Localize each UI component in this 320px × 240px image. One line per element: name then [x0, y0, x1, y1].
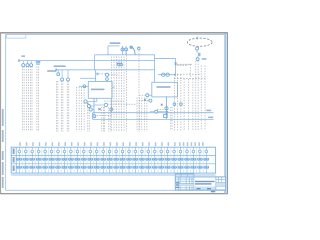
block1 left input contact — [79, 85, 89, 88]
cable group H3 dashed wires — [201, 66, 205, 131]
cable group C2 dashed wires — [88, 105, 89, 132]
cable long dashed wire — [138, 50, 140, 131]
control bus 24v wire — [93, 119, 214, 121]
drawing frame border — [6, 33, 226, 193]
wire number labels above terminal table — [19, 142, 203, 146]
bus 24v label — [208, 117, 213, 119]
generator lead wire — [196, 47, 199, 50]
cable group F dashed wires — [171, 107, 172, 131]
matching unit 2DBT block — [152, 82, 178, 97]
block1 right drop wire — [110, 87, 115, 113]
cable group A dashed wires — [23, 66, 39, 131]
matching unit 1DBT block — [88, 82, 112, 99]
dashed connector row 4 — [107, 103, 137, 105]
cable group H2 dashed wires — [196, 61, 198, 131]
contact K11 on feed wire — [165, 107, 168, 114]
bus 1Sh label — [110, 42, 121, 44]
cable group E dashed wires — [137, 98, 147, 132]
control bus 1n wire — [93, 112, 214, 114]
bus 1a label — [21, 55, 25, 57]
contactor KM1 coil — [196, 50, 206, 61]
left margin stamp column texts — [2, 109, 4, 188]
terminal row 3 fuse links — [17, 164, 209, 173]
fuse F2 on riser — [125, 46, 128, 55]
generator G1 dashed ellipse — [188, 38, 213, 46]
dashed connector row 2 — [174, 78, 206, 80]
bus 2Sh left drop wire — [94, 55, 96, 70]
bus 1Sh wire — [108, 46, 120, 55]
contact K3 under bus3 — [30, 61, 33, 67]
cable long dashed wire 2 — [126, 50, 128, 131]
bus 2Sh wire — [95, 54, 155, 56]
cable group C dashed wires — [77, 87, 85, 132]
dashed connector row 1 — [174, 73, 201, 75]
cable group B dashed wires — [56, 81, 69, 132]
contact K2 under bus3 — [26, 61, 29, 67]
contact K1 under bus3 — [22, 61, 25, 67]
block2 bottom feed wire — [166, 96, 168, 119]
bus 4 section wire — [56, 68, 155, 71]
contact K5 under bus4 — [67, 70, 70, 81]
cable group H dashed wires — [184, 79, 193, 131]
cable group D2 dashed wires — [102, 107, 105, 132]
label 2Sh sektsiya — [54, 65, 66, 67]
block1 top right contact pair — [105, 73, 117, 81]
bus 3 main wire — [19, 59, 155, 62]
feeder riser to block2 — [154, 55, 156, 83]
dashed connector row 3 — [104, 100, 124, 102]
junction mark left of block2 — [144, 99, 146, 101]
block2 under contact K10 — [150, 110, 167, 113]
bus 2Sh right segment — [155, 58, 176, 60]
current transformer TA1 ring contacts — [157, 103, 182, 110]
top-left stamp box graph 26 — [7, 35, 26, 39]
contactor KM2 flag — [175, 62, 193, 65]
generator top tick — [196, 37, 198, 40]
contact K0 with cable tail — [138, 46, 141, 50]
terminal strip table frame — [11, 147, 215, 175]
cable group G dashed wires — [174, 75, 181, 131]
contact K4a under bus4 — [57, 70, 60, 76]
title block document name text — [176, 181, 215, 193]
dashed link under contactor — [179, 65, 191, 80]
terminal T1 on bus3 — [36, 61, 40, 64]
terminal row 1 circles — [18, 147, 208, 155]
title block stamp — [175, 174, 225, 190]
dashed connector row 5 — [97, 115, 112, 117]
block2 left input contact — [139, 94, 152, 97]
terminal row 2 fuse links — [17, 156, 209, 164]
switch SA1 curved riser — [130, 46, 135, 55]
bus 1n label — [206, 110, 211, 112]
contact K4 under bus4 — [61, 70, 64, 81]
drawing sheet page — [0, 33, 227, 194]
terminal table row labels — [13, 149, 15, 172]
contact pair K7 K8 — [158, 73, 176, 76]
feeder drop wire right — [175, 58, 177, 76]
relay contact group under block1 — [84, 98, 108, 117]
terminal table column separators — [23, 147, 204, 173]
block2 lower contact K9 — [139, 99, 152, 102]
relay KA1 junction cluster — [161, 104, 168, 118]
cable group D3 dashed wires — [109, 108, 110, 132]
flag symbol on block1 feeder — [96, 73, 105, 76]
bus left junction wire — [92, 113, 94, 120]
label Shina svyazi — [47, 70, 56, 72]
contact pair K6 under bus3 mid — [117, 61, 123, 66]
cable group D dashed wires — [112, 57, 125, 132]
fuse F1 on riser — [121, 46, 124, 55]
block1 top feed wire — [80, 70, 96, 82]
